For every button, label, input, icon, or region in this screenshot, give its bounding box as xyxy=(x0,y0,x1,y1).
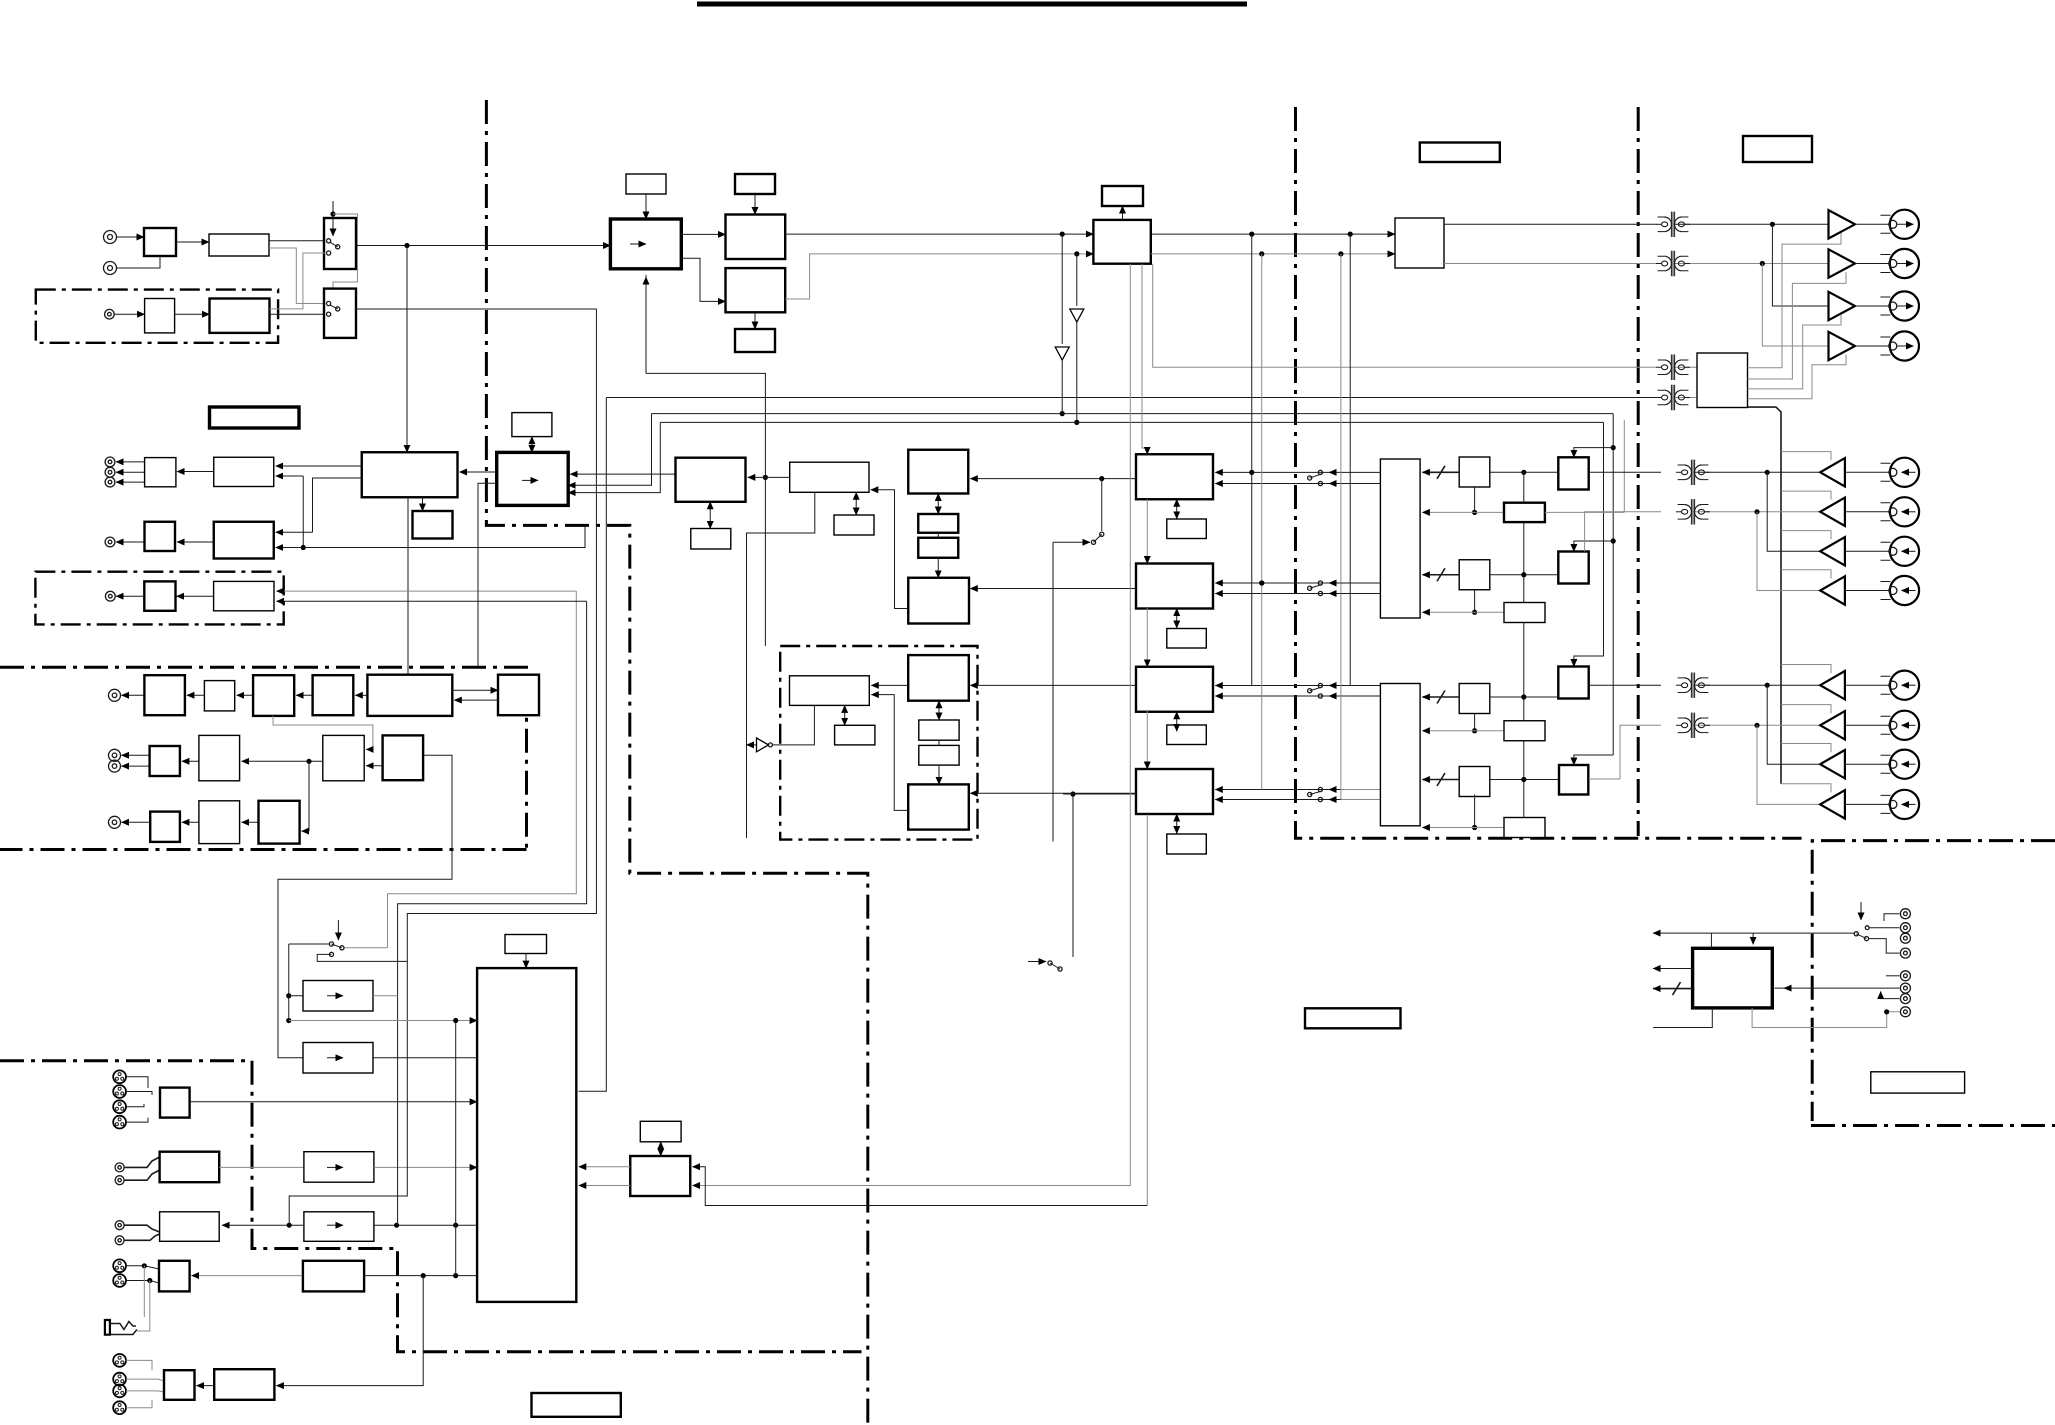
label box xyxy=(1167,725,1207,745)
output connector 1 xyxy=(1880,210,1919,239)
wire xyxy=(116,595,144,597)
riser wire xyxy=(1623,420,1625,512)
XLR connector xyxy=(113,1401,126,1414)
aux send switch 2 xyxy=(1028,961,1046,963)
bus vertical 1261 xyxy=(1261,254,1263,790)
digital in box xyxy=(145,299,175,333)
ADC box D3 xyxy=(1136,667,1213,712)
S3 lower path xyxy=(1474,590,1476,613)
label box xyxy=(505,935,547,954)
stub xyxy=(125,1157,160,1167)
XLR connector xyxy=(113,1373,126,1386)
input transformer xyxy=(1676,713,1710,738)
wire xyxy=(937,558,939,578)
label box xyxy=(640,1121,681,1142)
arrow glyph xyxy=(327,1166,343,1168)
grey jog to E row xyxy=(273,716,373,750)
label box xyxy=(835,725,875,745)
wire xyxy=(579,1166,630,1168)
remote connector xyxy=(1900,994,1910,1004)
XLR connector xyxy=(113,1354,126,1367)
amp branch from headphone bus xyxy=(1781,744,1831,753)
output box J4 xyxy=(159,1261,190,1292)
input transformer xyxy=(1676,673,1710,698)
monitor feed vertical xyxy=(455,1021,457,1276)
meter box S8 xyxy=(1504,721,1545,741)
wire xyxy=(302,476,304,548)
remote stub 2 xyxy=(1653,968,1693,970)
aux send switch xyxy=(1099,476,1104,481)
wire label to recorder xyxy=(525,954,527,969)
wire to SRC xyxy=(356,245,610,247)
wire to jack xyxy=(137,1281,150,1332)
monitor DAC box G5 xyxy=(908,784,969,829)
label box xyxy=(691,529,731,550)
mic amp box xyxy=(144,675,185,715)
remote connector xyxy=(1900,933,1910,943)
wire xyxy=(1869,927,1899,929)
wire xyxy=(1845,803,1890,805)
unit boundary: digital/output section divider xyxy=(1296,107,1802,838)
label box xyxy=(210,407,300,428)
meter box S2 xyxy=(1504,503,1545,522)
wire xyxy=(1884,914,1899,921)
SRC arrow glyph xyxy=(630,243,646,245)
wire xyxy=(344,947,388,949)
playback row C1 xyxy=(1589,684,1661,686)
playback amp 1 xyxy=(1820,458,1845,486)
playback amp 3 xyxy=(1820,537,1845,565)
switch contacts xyxy=(327,239,340,255)
monitor feed line 2 xyxy=(606,397,1656,399)
wire M1 label xyxy=(709,502,711,529)
wire xyxy=(192,1275,303,1277)
P1 meter box xyxy=(660,1142,662,1156)
S6 lower path xyxy=(1474,795,1476,828)
E4 monitor path xyxy=(278,755,452,1057)
filter E6 xyxy=(199,801,240,844)
playback buffer R4 xyxy=(1559,765,1588,795)
bus vertical 1340 xyxy=(1340,254,1342,800)
remote connector xyxy=(1900,909,1910,919)
input connector 3 xyxy=(1881,537,1920,566)
label box xyxy=(1871,1072,1965,1093)
tap bus2 down xyxy=(1076,254,1078,306)
monitor amp box xyxy=(1697,353,1748,408)
label box xyxy=(1420,143,1500,163)
arrow glyph xyxy=(522,479,538,481)
ADC box M1 xyxy=(676,458,746,502)
D chain wires xyxy=(1142,264,1147,455)
G3 chain xyxy=(938,701,940,720)
label box xyxy=(1167,519,1207,539)
wire xyxy=(308,761,310,831)
line amp 1 xyxy=(1829,210,1856,238)
wire xyxy=(364,1275,477,1277)
wire S3-R2 xyxy=(1490,574,1559,576)
XLR connector xyxy=(113,1385,126,1398)
wire xyxy=(116,461,145,463)
wire xyxy=(270,253,327,309)
title underline xyxy=(697,2,1247,7)
SRC box M2 xyxy=(790,462,869,492)
filter box xyxy=(214,522,274,559)
label box xyxy=(1167,629,1207,649)
stub xyxy=(126,1281,159,1284)
output transformer 1 xyxy=(1656,212,1690,237)
monitor stair 2 xyxy=(1748,272,1847,379)
stub xyxy=(126,1391,164,1392)
wire xyxy=(182,821,199,823)
sub box xyxy=(413,511,453,539)
wire xyxy=(1845,511,1890,513)
monitor stair 1 xyxy=(1748,233,1842,368)
wire xyxy=(1855,223,1890,225)
unit boundary: output transformer divider xyxy=(1637,107,1640,836)
meter box S4 xyxy=(1504,603,1545,623)
arrow glyph xyxy=(327,995,343,997)
input select switch box 2 xyxy=(324,289,356,338)
wire xyxy=(277,590,577,592)
input transformer xyxy=(1676,460,1710,485)
track switch xyxy=(1308,470,1323,485)
wire xyxy=(373,995,398,997)
small box G6 xyxy=(919,720,959,740)
level box K3 xyxy=(303,1261,364,1292)
monitor line 1 xyxy=(388,591,577,948)
wire S5-R3 xyxy=(1490,696,1559,698)
XLR out R xyxy=(113,1274,126,1287)
inverter xyxy=(747,744,757,746)
wire DAC to sub box xyxy=(422,497,424,511)
wire switch to mixer adc xyxy=(406,246,408,453)
stub xyxy=(125,1170,160,1180)
wire main bus 1 to DSP xyxy=(785,233,1093,235)
track assign box T1 xyxy=(1380,459,1420,618)
wire xyxy=(1845,471,1890,473)
box E3 xyxy=(323,735,364,780)
meter bus A xyxy=(693,264,1131,1186)
monitor line 2 xyxy=(398,601,587,995)
wire label to DA xyxy=(531,437,533,453)
XLR connector xyxy=(113,1100,126,1113)
label box xyxy=(1167,834,1207,854)
wire xyxy=(1545,511,1624,513)
monitor amp F2 xyxy=(303,1043,373,1074)
output filter box xyxy=(214,457,274,486)
remote stub 3 xyxy=(1653,988,1693,990)
wire xyxy=(296,694,312,696)
aux buffer box xyxy=(144,581,175,610)
DSP out bus1 xyxy=(1151,233,1395,235)
wire xyxy=(116,471,145,473)
remote control box H1 xyxy=(1693,948,1773,1008)
S5 lower path xyxy=(1474,714,1476,731)
input select switch box xyxy=(324,218,356,269)
wire xyxy=(1855,263,1890,265)
switch contacts xyxy=(327,301,340,316)
monitor feed line 1 xyxy=(1153,264,1657,368)
wire xyxy=(1710,933,1712,948)
wire xyxy=(397,996,399,1225)
ADC box D1 xyxy=(1136,454,1213,499)
output connector 4 xyxy=(1880,331,1919,360)
wire xyxy=(366,765,382,767)
bus box xyxy=(498,675,539,716)
connector line out L xyxy=(109,749,121,761)
wire to label xyxy=(1122,206,1124,220)
wire xyxy=(374,1166,477,1168)
branch to amp 3 xyxy=(1772,224,1828,306)
wire S1-R1 xyxy=(1490,471,1559,473)
wire xyxy=(276,475,304,477)
output connector 3 xyxy=(1880,291,1919,320)
output transformer 2 xyxy=(1656,251,1690,276)
input amp box xyxy=(144,228,176,256)
wire xyxy=(681,233,725,235)
wire xyxy=(1845,590,1890,592)
monitor stair 4 xyxy=(1748,355,1847,399)
label box xyxy=(512,413,552,437)
wire G3 to G1 xyxy=(871,684,908,686)
playback amp 4 xyxy=(1820,576,1845,604)
input connector 5 xyxy=(1881,671,1920,700)
wire xyxy=(122,821,151,823)
label box xyxy=(735,174,775,194)
bus vertical 1350 xyxy=(1349,234,1351,685)
wire xyxy=(373,1057,477,1059)
wire xyxy=(460,471,497,473)
bus Y0 xyxy=(645,275,647,373)
wire xyxy=(302,830,309,832)
input box J1 xyxy=(160,1088,190,1118)
wire xyxy=(242,821,259,823)
output connector 2 xyxy=(1880,249,1919,278)
rec level box S5 xyxy=(1459,684,1490,714)
digital if box 2 xyxy=(726,268,786,312)
RCA out L xyxy=(115,1221,124,1230)
wire xyxy=(938,740,940,745)
playback branch B4 xyxy=(1757,512,1820,591)
small box G7 xyxy=(919,745,959,765)
boundary: bottom-left I/O region xyxy=(0,1061,862,1352)
level box K2 xyxy=(304,1212,374,1242)
wire xyxy=(269,248,327,304)
track switch row 4 xyxy=(1215,789,1341,791)
wire M1 to DA xyxy=(570,473,675,475)
connector digital in xyxy=(105,309,115,319)
RCA out R xyxy=(115,1236,124,1245)
label box xyxy=(1102,186,1143,206)
line amp 3 xyxy=(1829,292,1856,320)
wire D label xyxy=(1176,499,1178,519)
input connector 7 xyxy=(1881,750,1920,779)
wire M2 to M1 xyxy=(748,476,790,478)
wire xyxy=(176,241,209,243)
output box J5 xyxy=(164,1370,195,1400)
playback row B1 xyxy=(1589,471,1661,473)
input transformer xyxy=(1676,499,1710,524)
label box xyxy=(834,515,874,535)
boundary: mic/line amp region xyxy=(0,667,527,849)
wire main bus 2 to DSP xyxy=(785,254,1093,299)
wire xyxy=(1869,939,1900,954)
wire M4 to M2 xyxy=(871,490,908,609)
DSP out bus2 xyxy=(1151,253,1395,255)
wire xyxy=(937,533,939,538)
connector monitor out xyxy=(105,537,115,547)
wire D1 to M3 xyxy=(970,478,1136,480)
off-page triangle xyxy=(1055,347,1069,360)
record out line 1 xyxy=(1444,223,1657,225)
input connector 8 xyxy=(1881,790,1920,819)
wire M2 label xyxy=(855,492,857,515)
G1 label wire xyxy=(844,705,846,725)
wire label to SRC xyxy=(645,194,647,219)
stub xyxy=(126,1360,152,1370)
DAC box D2 xyxy=(1136,564,1213,609)
record bus vertical xyxy=(1523,472,1525,817)
wire xyxy=(288,944,290,1021)
connector 2TR L in xyxy=(104,231,117,244)
wire DAC down to deck xyxy=(407,497,409,682)
wire xyxy=(116,541,145,543)
wire xyxy=(1855,345,1890,347)
connector 2TR R in xyxy=(104,262,117,275)
monitor SRC box G1 xyxy=(790,676,870,706)
S1 lower path xyxy=(1474,487,1476,512)
filter box xyxy=(209,234,269,256)
stub xyxy=(126,1400,152,1408)
connector aux out xyxy=(105,591,115,601)
wire xyxy=(177,595,214,597)
playback buffer R2 xyxy=(1558,552,1588,584)
amp branch from headphone bus xyxy=(1781,665,1831,674)
connector mix out xyxy=(105,477,115,487)
wire D label xyxy=(1176,609,1178,629)
XLR out L xyxy=(113,1259,126,1272)
track switch xyxy=(1308,787,1323,801)
playback branch B3 xyxy=(1767,472,1820,551)
switch control wire xyxy=(332,201,334,236)
headphone jack xyxy=(105,1320,110,1335)
wire xyxy=(454,699,498,701)
wire D label xyxy=(1176,814,1178,834)
wire xyxy=(1589,778,1620,780)
input connector 1 xyxy=(1881,458,1920,487)
rec level box S3 xyxy=(1459,560,1490,590)
connector mix out xyxy=(105,457,115,467)
playback branch C4 xyxy=(1757,725,1820,804)
DIR box M4 xyxy=(908,578,969,624)
bus Y2 xyxy=(652,413,1614,415)
wire xyxy=(177,471,214,473)
wire G5 to G1 xyxy=(871,695,908,811)
wire xyxy=(219,1166,304,1168)
amp branch from headphone bus xyxy=(1781,452,1831,461)
wire xyxy=(277,600,587,602)
wire inverter to G1 xyxy=(772,705,814,745)
buffer box xyxy=(145,522,176,551)
wire xyxy=(242,760,323,762)
stub xyxy=(126,1379,164,1381)
remote connector xyxy=(1900,948,1910,958)
wire xyxy=(276,531,313,533)
XLR connector xyxy=(113,1085,126,1098)
remote stub 1 xyxy=(1653,932,1854,934)
switch lever xyxy=(1048,961,1062,971)
monitor amp F1 xyxy=(303,981,373,1012)
wire xyxy=(276,547,304,549)
wire xyxy=(117,236,145,238)
meter box P1 xyxy=(630,1156,690,1196)
wire xyxy=(122,754,150,756)
monitor transformer 2 xyxy=(1656,385,1690,410)
stub xyxy=(125,1225,160,1232)
level box K4 xyxy=(214,1369,274,1400)
bus Y3 xyxy=(660,421,1603,423)
wire xyxy=(116,481,145,483)
label box xyxy=(1743,136,1812,162)
playback amp 5 xyxy=(1820,671,1845,699)
recorder box xyxy=(477,968,576,1302)
remote stub 4 xyxy=(1653,1008,1712,1028)
buffer E5 xyxy=(150,812,180,842)
amp branch from headphone bus xyxy=(1781,705,1831,714)
wire SRC lower output xyxy=(681,258,725,301)
monitor out path xyxy=(276,1276,423,1386)
digital if box xyxy=(726,215,786,260)
M3 chain boxes xyxy=(937,494,939,515)
wire xyxy=(303,526,585,548)
wire xyxy=(317,954,407,961)
wire xyxy=(333,214,358,296)
playback row C2 xyxy=(1620,725,1661,779)
track switch row 1 xyxy=(1215,471,1350,473)
line out filter E2 xyxy=(199,735,240,780)
label box xyxy=(532,1393,621,1417)
SRC box xyxy=(610,219,681,269)
wire xyxy=(1845,724,1890,726)
wire xyxy=(175,313,210,315)
wire DA left tap xyxy=(478,483,497,667)
wire xyxy=(237,694,253,696)
unit boundary: analog input section divider xyxy=(486,100,867,1425)
DA converter box xyxy=(497,452,569,505)
DAC box D4 xyxy=(1136,769,1213,814)
track switch row 3 xyxy=(1215,685,1350,687)
input connector 6 xyxy=(1881,711,1920,740)
record out line 2 xyxy=(1444,263,1657,265)
2TR record feed xyxy=(289,961,407,1225)
switch contacts xyxy=(329,942,344,950)
wire S6-R4 xyxy=(1490,779,1559,781)
remote connector xyxy=(1900,971,1910,981)
wire xyxy=(355,694,367,696)
output buffer box xyxy=(145,458,176,487)
track assign box T2 xyxy=(1380,684,1420,826)
boundary: aux-in dashed box xyxy=(35,572,283,625)
monitor transformer 1 xyxy=(1656,355,1690,380)
output box J3 xyxy=(160,1212,220,1242)
wire to label xyxy=(754,312,756,329)
fader box xyxy=(313,675,354,715)
level box K1 xyxy=(304,1152,374,1183)
playback row B2 xyxy=(1585,512,1661,552)
box E7 xyxy=(259,801,300,844)
wire DIR to switch xyxy=(270,313,327,315)
wire xyxy=(289,1020,477,1022)
